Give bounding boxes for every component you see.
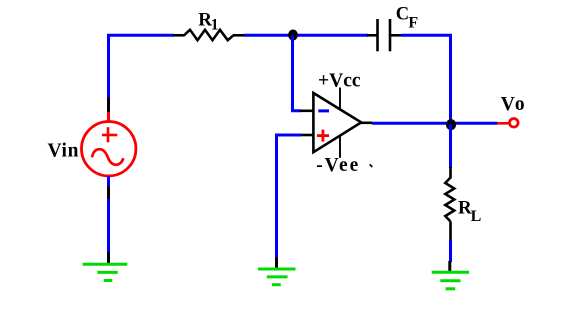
resistor RL (leads black) bbox=[449, 167, 452, 240]
sine wave inside Vin bbox=[92, 149, 123, 165]
wire: junction A down to inverting input bbox=[293, 35, 301, 111]
wire: top-left from Vin up and right to R1 bbox=[109, 35, 175, 99]
label CF bbox=[396, 5, 419, 32]
wire: Vin source top lead (red stub) bbox=[107, 112, 110, 121]
svg-text:1: 1 bbox=[211, 16, 219, 33]
ground (left, under Vin) bbox=[83, 264, 128, 280]
svg-text:C: C bbox=[396, 5, 409, 25]
op-amp non-inverting input mark (red plus) bbox=[317, 130, 329, 142]
wire: output to node B and right bbox=[372, 122, 498, 125]
label R1 bbox=[198, 10, 218, 34]
label RL bbox=[458, 198, 481, 226]
wire: Vin bottom lead (black overlay) bbox=[107, 186, 110, 199]
ground (right, under RL) bbox=[432, 272, 469, 289]
wire: node B down to RL bbox=[449, 124, 452, 168]
svg-text:Vin: Vin bbox=[48, 141, 80, 162]
wire: non-inverting input left and down to ground bbox=[277, 135, 302, 259]
svg-text:-Vee: -Vee bbox=[316, 155, 360, 176]
resistor RL (zigzag body) bbox=[445, 178, 454, 222]
wire: capacitor right to top-right corner, down to output node bbox=[402, 35, 451, 125]
wire: Vin bottom lead (blue upper) bbox=[107, 176, 110, 187]
wire: RL to ground (blue) bbox=[449, 240, 452, 262]
op-amp U1 power pin +Vcc (black) bbox=[339, 88, 341, 113]
wire: Vin source top lead (black) bbox=[107, 98, 110, 113]
op-amp inverting input mark (blue minus) bbox=[318, 109, 329, 112]
wire: op-amp output stub (black) bbox=[360, 122, 373, 125]
capacitor CF (plates) bbox=[378, 19, 391, 51]
node A (junction dot at feedback tap) bbox=[288, 30, 298, 41]
terminal Vo (open circle) bbox=[510, 119, 519, 128]
source Vin (AC source circle) bbox=[82, 122, 136, 176]
wire: ground stub left (black) bbox=[107, 252, 110, 265]
+ polarity mark inside Vin bbox=[102, 127, 117, 142]
stray accent mark right of -Vee bbox=[370, 164, 373, 167]
svg-text:L: L bbox=[471, 208, 482, 225]
capacitor CF (leads) bbox=[367, 34, 403, 37]
node B (output junction dot) bbox=[446, 119, 456, 130]
resistor R1 (zigzag body) bbox=[184, 30, 233, 40]
wire: middle ground stub (black) bbox=[275, 258, 278, 270]
wire: Vin to ground (blue) bbox=[107, 199, 110, 253]
op-amp U1 triangle bbox=[313, 93, 361, 152]
wire: inverting input stub (black) bbox=[300, 110, 314, 113]
wire: red segment to output terminal bbox=[497, 122, 509, 125]
op-amp U1 power pin -Vee (black) bbox=[339, 133, 341, 158]
svg-text:F: F bbox=[408, 14, 418, 31]
wire: R1 to junction A to capacitor CF bbox=[244, 34, 368, 37]
ground (middle, under op-amp + input) bbox=[258, 269, 296, 285]
resistor R1 (leads) bbox=[173, 34, 245, 37]
wire: right ground stub (black) bbox=[448, 261, 451, 274]
wire: non-inverting input stub (black) bbox=[301, 134, 314, 137]
svg-text:Vo: Vo bbox=[501, 94, 527, 115]
svg-text:+Vcc: +Vcc bbox=[318, 71, 361, 92]
